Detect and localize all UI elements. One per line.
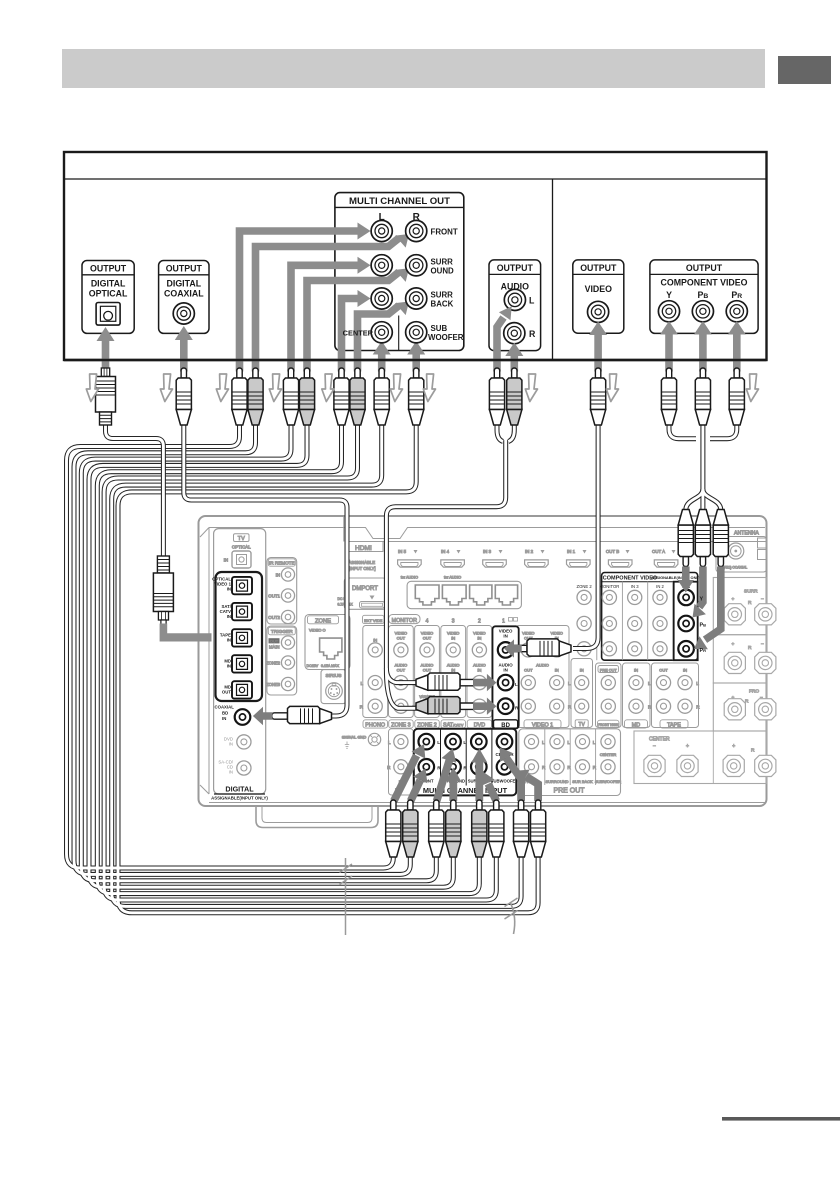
- BD label boxed: [494, 720, 518, 728]
- svg-text:OUT: OUT: [524, 668, 533, 673]
- svg-text:FRONT: FRONT: [431, 228, 458, 237]
- VIDEO 1 group: [516, 626, 569, 728]
- svg-text:HDMI: HDMI: [355, 545, 372, 552]
- SA-CD/CD IN jack (light): [218, 760, 233, 775]
- arrow into SURROUND L: [291, 265, 359, 371]
- svg-text:R: R: [748, 645, 752, 651]
- svg-text:ASSIGNABLE(INPUT ONLY): ASSIGNABLE(INPUT ONLY): [651, 575, 703, 580]
- jack SUBWOOFER: [406, 322, 427, 343]
- plug COMPONENT PB: [695, 368, 710, 425]
- svg-text:PRE OUT: PRE OUT: [553, 788, 585, 795]
- svg-text:TRIGGER: TRIGGER: [271, 629, 293, 635]
- DIGITAL column outer box: [214, 529, 266, 794]
- svg-text:VIDEO 1: VIDEO 1: [532, 723, 553, 729]
- optical output connector: [96, 303, 120, 326]
- svg-text:for AUDIO: for AUDIO: [444, 576, 461, 580]
- svg-text:L: L: [515, 682, 518, 687]
- RJ45 port 4: [495, 585, 517, 605]
- coaxial plug pointing left into BD IN: [272, 706, 332, 723]
- jack MCI SUR BACK R: [471, 759, 487, 775]
- optical jack MD IN: [232, 655, 252, 672]
- svg-text:L: L: [437, 740, 440, 746]
- svg-text:ZONE2: ZONE2: [266, 661, 281, 666]
- MULTI CHANNEL INPUT box: [414, 729, 517, 796]
- component light jacks: [602, 590, 616, 604]
- svg-text:IN 1: IN 1: [567, 549, 576, 554]
- wire video (to BD VIDEO IN): [573, 424, 598, 649]
- svg-text:OUT1: OUT1: [268, 594, 280, 599]
- svg-text:OPTICAL: OPTICAL: [89, 289, 128, 299]
- footer rule: [722, 1117, 840, 1121]
- panel inner bevel lines: [209, 528, 765, 539]
- IR REMOTE box: [267, 558, 297, 625]
- receiver foot: [256, 806, 378, 828]
- svg-text:IN: IN: [227, 614, 231, 619]
- MD column: [623, 663, 651, 728]
- speaker terminals row2: [724, 652, 745, 673]
- svg-text:IN 5: IN 5: [398, 549, 407, 554]
- center/sub divider: [398, 316, 400, 351]
- plug AUDIO L: [489, 368, 504, 425]
- DMPORT box: [344, 578, 386, 609]
- svg-text:DIGITAL: DIGITAL: [225, 785, 254, 794]
- wire component PR: [710, 424, 737, 439]
- jack AUDIO R: [504, 323, 525, 344]
- plug SURR BACK L: [334, 368, 349, 425]
- audio R plug into BD AUDIO IN R: [416, 697, 476, 714]
- svg-text:OUT: OUT: [270, 638, 279, 643]
- svg-text:ANTENNA: ANTENNA: [734, 531, 759, 537]
- jack CENTER: [371, 322, 392, 343]
- HDMI IN1: [567, 560, 591, 567]
- jack BD AUDIO IN L: [498, 675, 514, 691]
- HDMI IN5: [398, 560, 422, 567]
- component ZONE2 jacks (left of box, light): [577, 590, 591, 604]
- svg-text:L: L: [593, 740, 596, 745]
- svg-text:CENTER: CENTER: [649, 737, 670, 743]
- wire CENTER: [112, 424, 521, 906]
- panel inner top line: [64, 178, 767, 180]
- arrow into MCI CENTER: [506, 758, 521, 802]
- grey elbow arrow optical to TAPE IN: [160, 624, 212, 642]
- FRONT HIGH column: [596, 663, 622, 728]
- plug COMPONENT PR: [729, 368, 744, 425]
- arrow into COMPONENT PR: [733, 334, 741, 372]
- arrow into DIGITAL OPTICAL: [102, 340, 110, 372]
- svg-text:for AUDIO: for AUDIO: [401, 576, 418, 580]
- wire SURR BACK L: [97, 424, 479, 894]
- TRIGGER ZONE3 jack: [281, 677, 294, 690]
- arrow into FRONT L: [240, 231, 359, 372]
- svg-text:ZONE 2: ZONE 2: [577, 584, 593, 589]
- SA-CD/CD column: [389, 729, 414, 795]
- svg-text:R: R: [751, 748, 755, 754]
- speaker terminal area: [634, 578, 776, 784]
- svg-text:OPTICAL: OPTICAL: [232, 545, 251, 550]
- TV column: [571, 659, 593, 728]
- plug SURR BACK R: [350, 368, 365, 425]
- wire SURROUND L: [81, 424, 436, 881]
- svg-text:TV: TV: [579, 722, 586, 728]
- panel section divider: [552, 179, 554, 360]
- svg-text:PHONO: PHONO: [365, 723, 385, 729]
- svg-text:CENTER: CENTER: [343, 329, 374, 338]
- arrow into SUBWOOFER: [412, 354, 420, 372]
- svg-text:R: R: [745, 699, 749, 705]
- header dark tab: [778, 56, 831, 84]
- svg-text:IN: IN: [229, 742, 233, 747]
- svg-text:ZONE 2: ZONE 2: [417, 723, 436, 729]
- svg-text:MD: MD: [632, 723, 640, 729]
- jack component IN1 PR: [678, 641, 694, 657]
- header grey bar: [62, 49, 765, 88]
- arrow into COAXIAL BD IN: [253, 707, 273, 725]
- optical jack MD OUT: [232, 681, 252, 698]
- svg-text:1: 1: [502, 619, 505, 625]
- svg-text:R: R: [748, 600, 752, 606]
- svg-text:+: +: [732, 696, 735, 701]
- svg-text:TAPE: TAPE: [667, 723, 681, 729]
- svg-text:DVD: DVD: [474, 723, 485, 729]
- svg-text:−: −: [760, 696, 763, 701]
- arrow into component PB: [699, 567, 703, 608]
- plug COMPONENT Y: [661, 368, 676, 425]
- HDMI IN2: [525, 560, 549, 567]
- jack component IN1 PB: [678, 616, 694, 632]
- svg-text:Y: Y: [666, 290, 672, 300]
- svg-text:IN 3: IN 3: [631, 584, 639, 589]
- HDMI OUT B: [608, 560, 632, 567]
- arrow into COMPONENT PB: [699, 334, 707, 372]
- bottom plug SUR BACK R: [489, 800, 504, 857]
- IR IN jack: [281, 568, 294, 581]
- RJ45 port 2: [442, 585, 466, 605]
- svg-text:+: +: [732, 744, 735, 750]
- plug AUDIO R: [507, 368, 522, 425]
- svg-text:SURROUND: SURROUND: [545, 779, 568, 784]
- jack FRONT L: [371, 220, 392, 241]
- panel bottom edge redraw: [64, 359, 767, 361]
- svg-text:OUTPUT: OUTPUT: [166, 263, 203, 273]
- svg-text:MONITOR: MONITOR: [600, 584, 620, 589]
- svg-text:VIDEO: VIDEO: [585, 284, 613, 294]
- svg-text:OUT: OUT: [222, 690, 231, 695]
- svg-text:(75Ω) COAXIAL: (75Ω) COAXIAL: [723, 566, 747, 570]
- SIRIUS box: [321, 670, 346, 704]
- svg-text:SUBWOOFER: SUBWOOFER: [595, 779, 621, 784]
- jack DIGITAL COAXIAL: [173, 303, 194, 324]
- jack MCI SURROUND L: [445, 734, 461, 750]
- arrow into MCI SURROUND L: [437, 760, 450, 801]
- svg-text:L: L: [542, 740, 545, 745]
- svg-text:AUDIO: AUDIO: [536, 663, 549, 668]
- HDMI OUT A: [654, 560, 678, 567]
- svg-text:R: R: [437, 765, 441, 771]
- RJ45 port 3: [470, 585, 492, 605]
- svg-text:OUT: OUT: [423, 668, 432, 673]
- jack MCI FRONT R: [419, 759, 435, 775]
- svg-text:SIGNAL GND: SIGNAL GND: [342, 735, 367, 740]
- arrow into MCI FRONT R: [411, 780, 421, 801]
- jack component IN1 Y: [678, 590, 694, 606]
- plug FRONT L: [232, 368, 247, 425]
- svg-text:IN: IN: [229, 770, 233, 775]
- svg-text:2: 2: [478, 619, 481, 625]
- HDMI IN3: [483, 560, 507, 567]
- jack BD VIDEO IN: [498, 642, 514, 658]
- wire SUBWOOFER: [118, 424, 538, 913]
- svg-text:ZONE: ZONE: [315, 619, 331, 625]
- wire SURROUND R: [89, 424, 453, 887]
- svg-text:COAXIAL: COAXIAL: [164, 289, 204, 299]
- svg-text:IN: IN: [224, 558, 228, 563]
- IR OUT1 jack: [281, 589, 294, 602]
- svg-text:COAXIAL: COAXIAL: [215, 705, 235, 710]
- svg-text:IN: IN: [227, 664, 231, 669]
- svg-text:OUTPUT: OUTPUT: [686, 263, 723, 273]
- svg-text:−: −: [761, 598, 764, 603]
- plug FRONT R: [248, 368, 263, 425]
- arrow into BD AUDIO IN L: [473, 674, 496, 691]
- svg-text:IN: IN: [503, 668, 507, 673]
- arrow into SURROUND R: [307, 272, 399, 372]
- svg-text:OUT: OUT: [423, 636, 432, 641]
- arrow into MCI SUR BACK L: [475, 762, 483, 801]
- svg-text:L: L: [567, 740, 570, 745]
- svg-text:[INPUT ONLY]: [INPUT ONLY]: [349, 566, 376, 571]
- HDMI section: [345, 542, 383, 552]
- jack MCI CENTER: [497, 734, 513, 750]
- svg-text:SURR: SURR: [431, 291, 454, 300]
- jack COMPONENT Y: [658, 301, 679, 322]
- svg-text:EXT VIDE: EXT VIDE: [364, 618, 382, 623]
- EXT VIDEO label: [363, 615, 385, 623]
- svg-text:IN: IN: [634, 668, 638, 673]
- svg-text:L: L: [648, 681, 651, 686]
- jack SURR BACK R: [406, 288, 427, 309]
- TRIGGER MAIN jack: [281, 636, 294, 649]
- svg-text:ZONE3: ZONE3: [266, 682, 281, 687]
- OUTPUT VIDEO box: [573, 260, 624, 333]
- svg-text:+: +: [686, 744, 689, 750]
- speaker SURROUND terminals: [724, 604, 745, 625]
- svg-text:IN: IN: [222, 716, 226, 721]
- svg-text:VIDEO O: VIDEO O: [309, 628, 326, 633]
- svg-text:MAIN: MAIN: [269, 645, 279, 650]
- jack MCI SURROUND R: [445, 759, 461, 775]
- TOSLINK optical plug pointing down at TAPE IN: [153, 556, 173, 625]
- svg-text:L: L: [388, 740, 391, 745]
- plug SURROUND L: [283, 368, 298, 425]
- svg-text:L: L: [529, 296, 535, 306]
- arrow into component PR: [705, 567, 721, 640]
- svg-text:ZONE 3: ZONE 3: [391, 723, 410, 729]
- arrow into CENTER: [378, 354, 386, 372]
- svg-text:L: L: [360, 681, 363, 686]
- 8 multichannel cables: black outline then white core: [67, 424, 539, 913]
- svg-text:IN: IN: [477, 668, 481, 673]
- svg-text:−: −: [653, 744, 656, 750]
- bottom plug SUR BACK L: [472, 800, 487, 857]
- svg-text:IN 4: IN 4: [441, 549, 450, 554]
- section divider: [343, 517, 345, 542]
- bottom plug SURROUND L: [429, 800, 444, 857]
- svg-text:CENTER: CENTER: [600, 752, 617, 757]
- arrow into SURR BACK L: [342, 299, 359, 372]
- audio L row jacks: [368, 676, 382, 690]
- jack MCI FRONT L: [419, 734, 435, 750]
- arrow into MCI SUBWOOFER: [526, 777, 538, 802]
- optical jack OPTICAL VIDEO 1 IN: [232, 577, 252, 594]
- wire SURR BACK R: [104, 424, 496, 900]
- arrow into SURR BACK R: [358, 306, 400, 372]
- svg-text:MONITOR: MONITOR: [392, 618, 417, 624]
- jack MCI SUR BACK L: [471, 734, 487, 750]
- wire FRONT R: [74, 424, 410, 874]
- arrow into AUDIO L: [497, 318, 504, 372]
- svg-text:OUT2: OUT2: [268, 615, 280, 620]
- PRE OUT box: [519, 729, 621, 796]
- svg-text:R: R: [529, 329, 536, 339]
- svg-text:IR REMOTE: IR REMOTE: [269, 561, 295, 566]
- COMPONENT VIDEO box: [602, 573, 698, 661]
- cable-cut indicator line: [340, 858, 518, 935]
- svg-text:IN 2: IN 2: [656, 584, 664, 589]
- arrow into MCI FRONT L: [394, 756, 417, 802]
- plug SUBWOOFER: [409, 368, 424, 425]
- svg-text:SIRIUS: SIRIUS: [326, 673, 342, 679]
- svg-text:+: +: [732, 598, 735, 603]
- svg-text:IN: IN: [373, 638, 377, 643]
- svg-text:4: 4: [426, 619, 429, 625]
- svg-text:IN: IN: [451, 668, 455, 673]
- svg-text:IN: IN: [477, 636, 481, 641]
- OUTPUT AUDIO box: [489, 260, 541, 351]
- video plug pointing left into BD VIDEO IN: [511, 639, 571, 656]
- svg-text:ASSIGNABLE: ASSIGNABLE: [349, 560, 376, 565]
- RJ45 port 1: [415, 585, 439, 605]
- svg-text:L: L: [463, 740, 466, 746]
- svg-text:DIGITAL: DIGITAL: [167, 279, 202, 289]
- DVD IN jack (light): [224, 737, 233, 747]
- arrow into component Y: [682, 567, 690, 581]
- svg-text:SUBWOOFER: SUBWOOFER: [491, 779, 519, 784]
- arrow into FRONT R: [256, 238, 400, 372]
- TV optical section: [234, 534, 250, 542]
- arrow into AUDIO R: [510, 355, 518, 372]
- DIGITAL optical group bold box: [216, 572, 263, 701]
- ZONE box: [305, 615, 350, 670]
- OUTPUT DIGITAL OPTICAL box: [82, 261, 134, 334]
- jack AUDIO L: [504, 289, 525, 310]
- DVD/SACD player rear panel outline: [64, 152, 767, 360]
- component plug Y pointing down: [678, 510, 693, 567]
- arrow into MCI SURROUND R: [449, 781, 457, 801]
- svg-text:IN: IN: [580, 668, 584, 673]
- BD column bold box: [493, 626, 519, 728]
- svg-text:L: L: [696, 681, 699, 686]
- svg-text:DMPORT: DMPORT: [352, 586, 378, 592]
- svg-text:IN: IN: [451, 636, 455, 641]
- ZONE RJ port: [320, 638, 342, 659]
- component plug PB pointing down: [695, 510, 710, 567]
- video/audio column boxes: [363, 626, 388, 718]
- TRIGGER ZONE2 jack: [281, 656, 294, 669]
- jack MCI SUBWOOFER: [497, 759, 513, 775]
- bottom plug FRONT L: [386, 800, 401, 857]
- svg-text:IN: IN: [227, 638, 231, 643]
- svg-text:OUTPUT: OUTPUT: [497, 263, 534, 273]
- bottom plug SUBWOOFER: [531, 800, 546, 857]
- svg-text:OUT: OUT: [397, 636, 406, 641]
- jack SURROUND L: [371, 255, 392, 276]
- coax plug (top row): [176, 368, 191, 425]
- speaker CENTER terminals: [644, 755, 665, 776]
- OUTPUT DIGITAL COAXIAL box: [159, 261, 209, 334]
- svg-text:BACK: BACK: [431, 300, 454, 309]
- svg-text:ASSIGNABLE(INPUT ONLY): ASSIGNABLE(INPUT ONLY): [211, 796, 268, 801]
- svg-text:+: +: [732, 643, 735, 648]
- wire coaxial (to BD IN): [184, 424, 347, 716]
- svg-text:COMPONENT VIDEO: COMPONENT VIDEO: [603, 576, 658, 582]
- svg-text:OUT: OUT: [659, 668, 668, 673]
- RJ45 bank: [407, 581, 521, 608]
- svg-text:MULTI CHANNEL OUT: MULTI CHANNEL OUT: [349, 196, 450, 207]
- arrow into DIGITAL COAXIAL: [180, 339, 188, 372]
- svg-text:COMPONENT VIDEO: COMPONENT VIDEO: [661, 278, 748, 288]
- wire FRONT L: [67, 424, 394, 868]
- svg-text:TV: TV: [238, 536, 245, 542]
- plug SURROUND R: [299, 368, 314, 425]
- svg-text:R: R: [463, 765, 467, 771]
- bottom source labels: [363, 720, 388, 728]
- svg-text:OUND: OUND: [431, 267, 455, 276]
- svg-text:IN: IN: [227, 586, 231, 591]
- arrow into MCI SUR BACK R: [488, 784, 496, 801]
- plug CENTER: [374, 368, 389, 425]
- jack BD AUDIO IN R: [498, 698, 514, 714]
- svg-text:SURR: SURR: [431, 258, 454, 267]
- svg-text:DIGITAL: DIGITAL: [91, 279, 126, 289]
- jack SURR BACK L: [371, 288, 392, 309]
- arrow into BD AUDIO IN R: [473, 698, 496, 715]
- svg-text:OUT B: OUT B: [606, 549, 619, 554]
- arrow into COMPONENT Y: [665, 334, 673, 372]
- bottom plug CENTER: [514, 800, 529, 857]
- jack FRONT R: [406, 220, 427, 241]
- OUTPUT COMPONENT VIDEO box: [650, 260, 758, 334]
- svg-text:IN: IN: [683, 668, 687, 673]
- svg-text:0.15A MAX: 0.15A MAX: [321, 664, 340, 668]
- arrow into VIDEO: [594, 334, 602, 372]
- jack COMPONENT PR: [726, 301, 747, 322]
- MONITOR label: [389, 615, 420, 624]
- svg-text:SUB: SUB: [431, 324, 448, 333]
- svg-text:IN: IN: [276, 573, 280, 578]
- optical jack SAT/CATV IN: [232, 603, 252, 620]
- svg-text:SUR BACK: SUR BACK: [572, 779, 593, 784]
- jack VIDEO: [588, 301, 609, 322]
- svg-text:IN 3: IN 3: [483, 549, 492, 554]
- insertion direction outline arrows: [86, 374, 98, 402]
- optical jack TAPE IN: [232, 629, 252, 646]
- jack SURROUND R: [406, 255, 427, 276]
- svg-text:OUTPUT: OUTPUT: [580, 263, 617, 273]
- receiver panel outline: [199, 516, 767, 806]
- wire component Y: [669, 424, 696, 439]
- TRIGGER box: [267, 626, 297, 695]
- SIRIUS DIN connector: [326, 683, 343, 700]
